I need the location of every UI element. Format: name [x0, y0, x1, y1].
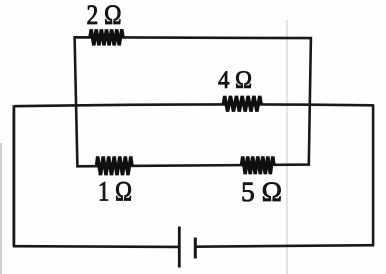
wire: outer right vertical	[372, 104, 375, 246]
resistor R3 1-ohm	[97, 157, 133, 176]
wire: outer top branch (4-ohm wire)	[14, 104, 373, 106]
value label "1 ohm" for R3	[100, 182, 131, 201]
wire: bottom left segment to battery	[13, 245, 179, 248]
wire: bottom right segment from battery	[196, 245, 375, 247]
resistor R4 5-ohm	[242, 157, 275, 175]
battery V1 positive (long) plate	[178, 227, 181, 268]
scan artifact: faint vertical fold line	[286, 20, 288, 274]
value label "5 ohm" for R4	[243, 182, 281, 201]
wire: inner loop (top branch, left/right verticals, middle branch node A-B)	[75, 37, 311, 166]
value label "4 ohm" for R2	[218, 71, 250, 88]
scan artifact: faint left page edge	[0, 143, 2, 274]
battery V1 negative (short) plate	[194, 238, 197, 259]
resistor R1 2-ohm	[90, 29, 123, 45]
resistor R2 4-ohm	[224, 96, 262, 112]
value label "2 ohm" for R1	[88, 5, 121, 24]
wire: outer left vertical	[12, 105, 15, 246]
